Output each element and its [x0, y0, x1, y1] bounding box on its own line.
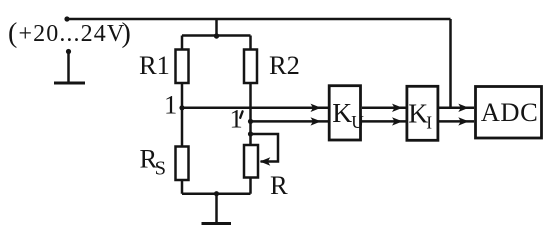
arrowhead into KI upper [392, 104, 403, 112]
svg-text:R: R [270, 170, 288, 200]
wire: KU to KI lower [362, 120, 406, 123]
arrowhead into ADC lower [458, 117, 469, 125]
node: supply rail left terminal dot [64, 16, 69, 21]
node 1 junction dot [179, 105, 184, 110]
svg-text:): ) [122, 18, 131, 49]
wire: supply drop to ADC line [449, 19, 452, 108]
svg-text:1: 1 [164, 90, 177, 120]
arrowhead into KU lower [311, 117, 322, 125]
wire: left branch vertical [181, 36, 184, 194]
arrowhead: wiper into R [260, 157, 271, 165]
svg-text:R1: R1 [139, 50, 170, 80]
arrowhead into ADC upper [458, 104, 469, 112]
svg-text:(: ( [8, 18, 17, 49]
arrowhead into KU upper [311, 104, 322, 112]
amplifier KI box [407, 86, 438, 140]
node: loop junction dot [248, 131, 253, 136]
node: bridge top junction [214, 33, 219, 38]
node 1' junction dot [248, 119, 253, 124]
wire: node 1 rail to KU [182, 107, 329, 110]
arrowhead into KI lower [392, 117, 403, 125]
svg-text:ADC: ADC [481, 97, 538, 127]
ADC box [476, 87, 542, 139]
svg-text:R2: R2 [269, 50, 300, 80]
power terminal symbol below label [54, 52, 85, 84]
svg-text:+20...24V: +20...24V [19, 21, 126, 47]
svg-text:K: K [332, 97, 352, 128]
wire: wiper loop of R [251, 134, 279, 162]
wire: KI to ADC lower [439, 120, 475, 123]
wire: node 1' rail to KU [251, 120, 329, 123]
wire: bridge bottom [182, 192, 251, 195]
resistor R (adjustable) [244, 145, 258, 178]
svg-text:S: S [155, 157, 166, 179]
node: bottom junction dot [214, 191, 219, 196]
wire: +V supply top rail [67, 18, 451, 21]
amplifier KU box [329, 86, 360, 140]
wire: bridge top [182, 34, 251, 37]
ground [202, 194, 232, 224]
wire: right branch vertical [249, 36, 252, 194]
resistor R2 [244, 50, 257, 84]
resistor Rs [176, 147, 189, 181]
wire: KU to KI upper [362, 107, 406, 110]
svg-text:I: I [426, 112, 432, 132]
resistor R1 [176, 50, 189, 84]
svg-text:K: K [408, 98, 428, 129]
wire: stub from top rail to bridge top [215, 19, 218, 36]
wire: KI to ADC upper [439, 107, 475, 110]
